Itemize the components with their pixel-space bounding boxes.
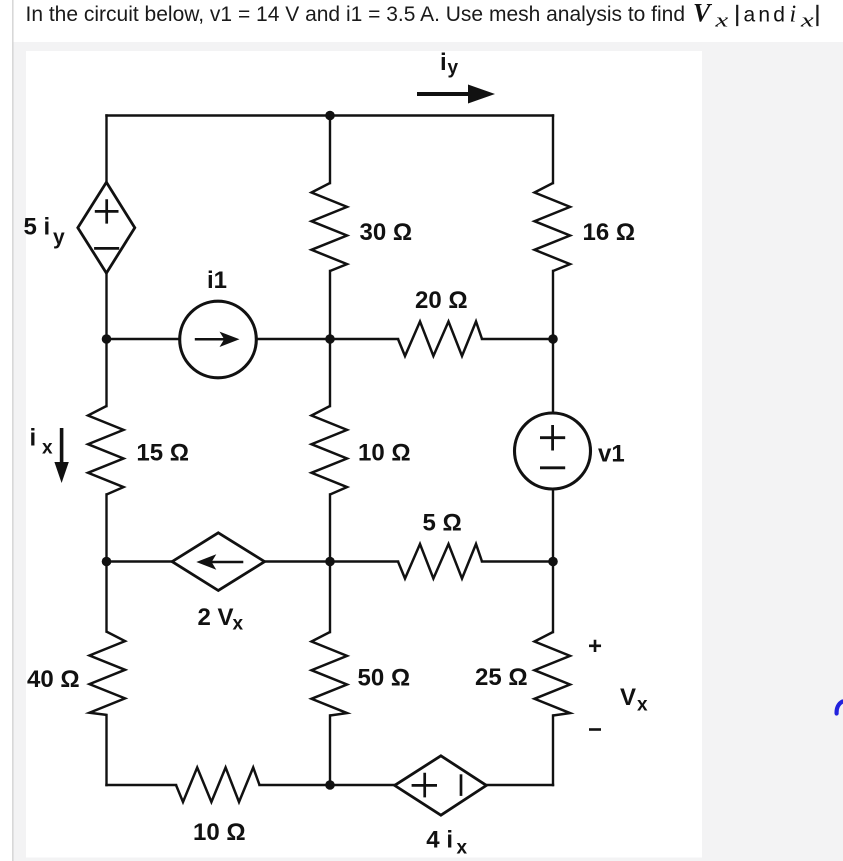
wire right vertical bottom <box>552 716 554 786</box>
node row3 middle <box>325 557 335 567</box>
v1 plus sign <box>540 425 565 468</box>
i1 arrow <box>195 332 240 347</box>
wire bottom right segment <box>486 784 553 786</box>
4ix minus bar (vertical) <box>460 774 463 796</box>
resistor 20ohm zigzag <box>398 322 482 357</box>
dependent source 5iy diamond <box>78 182 135 273</box>
wire bottom left segment <box>107 784 177 786</box>
resistor 50ohm zigzag <box>312 632 348 716</box>
wire left vertical upper <box>105 116 107 183</box>
wire row2 left segment <box>107 338 180 340</box>
resistor 25ohm zigzag <box>535 632 571 716</box>
wire middle vertical mid1 <box>329 271 331 406</box>
wire row2 right segment <box>482 338 553 340</box>
svg-text:5 i: 5 i <box>24 213 51 240</box>
wire top horizontal <box>107 114 554 116</box>
dependent source 2Vx diamond <box>172 533 265 591</box>
label 5iy <box>24 213 66 249</box>
resistor 15ohm zigzag <box>88 406 124 495</box>
svg-text:x: x <box>714 10 728 31</box>
svg-text:i: i <box>30 425 37 452</box>
svg-text:4 i: 4 i <box>426 827 453 854</box>
label 2Vx <box>198 604 244 635</box>
resistor 30ohm zigzag <box>312 183 348 271</box>
iy current arrow <box>417 85 495 104</box>
svg-text:v1: v1 <box>598 441 625 468</box>
blue pen mark right edge <box>837 702 843 714</box>
svg-text:x: x <box>233 614 244 635</box>
node bottom middle <box>325 780 335 790</box>
svg-text:50 Ω: 50 Ω <box>358 665 411 692</box>
svg-text:x: x <box>457 838 468 859</box>
svg-text:and: and <box>744 4 789 27</box>
svg-text:5 Ω: 5 Ω <box>423 510 462 537</box>
wire middle vertical top <box>329 116 331 184</box>
wire row3 left segment <box>107 560 173 562</box>
node row3 right <box>548 557 558 567</box>
svg-text:y: y <box>53 226 65 249</box>
5iy minus sign <box>94 247 119 250</box>
svg-text:30 Ω: 30 Ω <box>360 219 413 246</box>
svg-text:+: + <box>588 633 602 660</box>
svg-text:20 Ω: 20 Ω <box>415 287 468 314</box>
node row2 middle <box>325 334 335 344</box>
resistor 10ohm bottom zigzag <box>176 768 260 803</box>
svg-text:i1: i1 <box>207 267 227 294</box>
wire left vertical bottom <box>105 715 107 785</box>
resistor 16ohm zigzag <box>535 183 571 271</box>
current source i1 circle <box>180 301 257 378</box>
title math Vx <box>693 0 819 31</box>
svg-text:15 Ω: 15 Ω <box>136 440 189 467</box>
svg-text:16 Ω: 16 Ω <box>583 219 636 246</box>
node row2 right <box>548 334 558 344</box>
svg-text:25 Ω: 25 Ω <box>475 664 528 691</box>
junction node dots <box>102 111 558 790</box>
svg-text:y: y <box>448 58 459 79</box>
svg-text:V: V <box>693 0 713 28</box>
label Vx <box>620 684 648 716</box>
wire row3 right segment <box>482 560 553 562</box>
svg-text:x: x <box>637 695 648 716</box>
wire bottom mid segment <box>260 784 395 786</box>
label 4ix <box>426 827 467 859</box>
dependent source 4ix diamond <box>395 756 487 815</box>
wire row3 mid segment <box>265 560 398 562</box>
svg-text:i: i <box>790 2 797 28</box>
wire right vertical mid1 <box>552 271 554 413</box>
wire row2 mid segment <box>257 338 399 340</box>
node row3 left <box>102 557 112 567</box>
resistor 40ohm zigzag <box>90 632 126 715</box>
wire left vertical diamond-to-row2 <box>105 273 107 406</box>
label iy <box>440 49 459 79</box>
sidebar divider line <box>12 0 14 861</box>
svg-text:V: V <box>620 684 636 711</box>
wire middle vertical mid2 <box>329 495 331 633</box>
wire middle vertical bottom <box>329 716 331 786</box>
node row2 left <box>102 334 112 344</box>
svg-text:10 Ω: 10 Ω <box>193 819 246 846</box>
svg-text:2 V: 2 V <box>198 604 234 631</box>
svg-text:i: i <box>440 49 447 76</box>
node top-middle <box>325 111 335 121</box>
svg-text:x: x <box>42 438 53 459</box>
4ix plus sign <box>412 773 461 798</box>
resistor 10ohm mid zigzag <box>312 406 348 495</box>
2Vx arrow (left pointing) <box>196 554 243 569</box>
voltage source v1 circle <box>515 413 591 489</box>
v1 minus sign <box>540 466 565 469</box>
ix current arrow <box>54 428 68 483</box>
5iy plus sign <box>94 199 119 248</box>
label ix <box>30 425 54 459</box>
title text <box>26 0 686 29</box>
wire left vertical row2-to-40ohm (15ohm inline) <box>105 495 107 632</box>
label Vx minus <box>589 728 601 731</box>
resistor 5ohm zigzag <box>398 544 482 579</box>
svg-text:40 Ω: 40 Ω <box>27 666 80 693</box>
wire right vertical top <box>552 116 554 184</box>
svg-text:10 Ω: 10 Ω <box>358 440 411 467</box>
wire right vertical mid2 <box>552 489 554 632</box>
svg-text:x: x <box>800 10 814 31</box>
